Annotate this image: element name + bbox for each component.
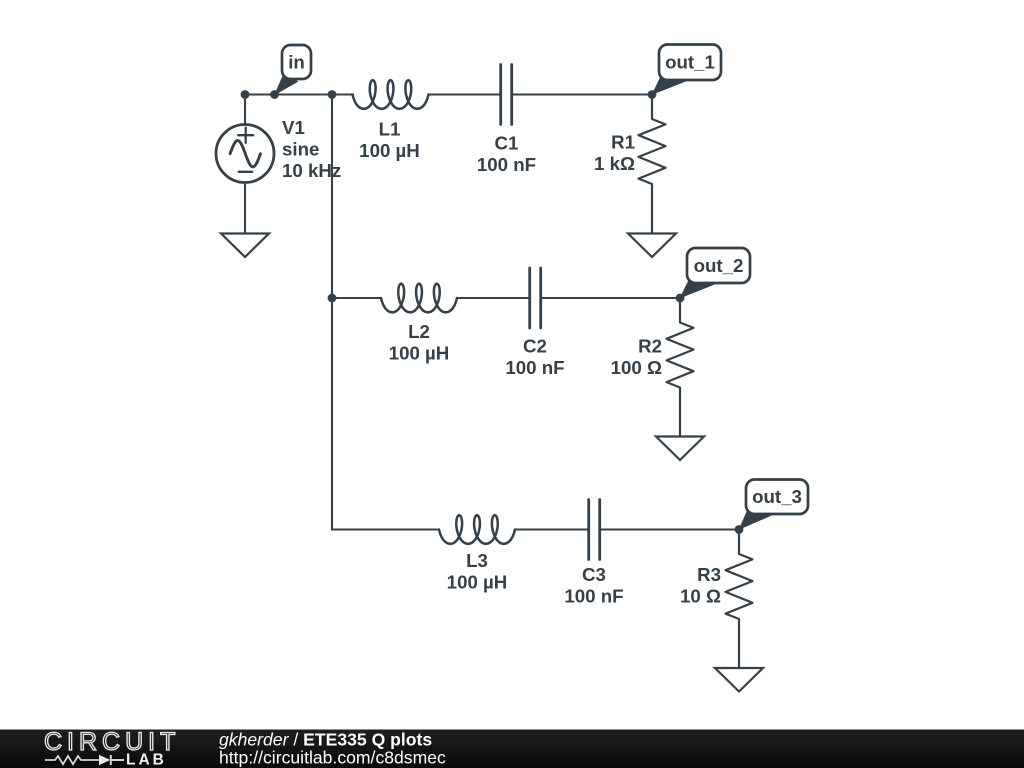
wire: L3 to C3 <box>515 528 588 530</box>
wire: C1 to out_1 node <box>513 93 653 95</box>
inductor L3 <box>439 515 515 544</box>
label C1 100 nF <box>477 133 536 176</box>
svg-text:C3: C3 <box>582 564 606 585</box>
ground below R3 <box>715 668 763 692</box>
CircuitLab logo resistor-diode glyph <box>45 755 124 765</box>
svg-text:100 nF: 100 nF <box>477 154 536 175</box>
wire: C3 to out_3 node <box>601 528 740 530</box>
node out_3 label <box>735 480 808 534</box>
node out_2 label <box>676 248 750 302</box>
svg-text:10 Ω: 10 Ω <box>680 586 721 607</box>
inductor L1 <box>353 80 429 109</box>
svg-text:out_1: out_1 <box>665 52 715 73</box>
svg-text:V1: V1 <box>282 117 305 138</box>
wire: L2 to C2 <box>457 297 529 299</box>
svg-text:gkherder / ETE335 Q plots: gkherder / ETE335 Q plots <box>219 730 432 750</box>
resistor R1 <box>639 95 666 234</box>
wire: bus to L2 <box>332 297 381 299</box>
junction dot at bus/row2 <box>328 294 337 303</box>
svg-text:out_3: out_3 <box>752 486 802 507</box>
svg-text:C2: C2 <box>523 336 547 357</box>
label R3 10 Ohm <box>680 564 721 607</box>
svg-text:100 µH: 100 µH <box>447 572 508 593</box>
label R2 100 Ohm <box>611 336 662 379</box>
capacitor C3 <box>589 500 600 560</box>
svg-text:R3: R3 <box>697 564 721 585</box>
capacitor C1 <box>501 65 512 125</box>
svg-text:1 kΩ: 1 kΩ <box>594 153 635 174</box>
junction dot at V1 top <box>241 90 250 99</box>
resistor R2 <box>667 298 694 437</box>
svg-text:out_2: out_2 <box>694 255 744 276</box>
ground below V1 <box>221 234 269 258</box>
node out_1 label <box>648 45 721 99</box>
label L1 100 uH <box>359 119 420 162</box>
label V1 sine 10 kHz <box>282 117 341 181</box>
svg-text:C1: C1 <box>495 133 519 154</box>
wire: V1 top node to L1 <box>245 93 353 95</box>
label L3 100 uH <box>447 550 508 593</box>
wire: main vertical bus with bend to row 3 <box>332 95 439 530</box>
ground below R2 <box>656 437 704 461</box>
label C2 100 nF <box>505 336 564 379</box>
wire: C2 to out_2 node <box>542 297 681 299</box>
label R1 1 kOhm <box>594 132 635 175</box>
voltage source V1 <box>216 95 274 234</box>
svg-text:100 µH: 100 µH <box>359 140 420 161</box>
svg-text:LAB: LAB <box>126 752 167 768</box>
svg-text:in: in <box>288 51 305 72</box>
ground below R1 <box>628 234 676 258</box>
node in label <box>270 45 311 99</box>
inductor L2 <box>381 284 457 313</box>
junction dot at bus/row1 <box>328 90 337 99</box>
resistor R3 <box>726 530 753 669</box>
svg-text:L3: L3 <box>466 550 488 571</box>
svg-text:100 Ω: 100 Ω <box>611 357 662 378</box>
svg-text:R2: R2 <box>638 336 662 357</box>
svg-text:L2: L2 <box>408 321 430 342</box>
svg-text:L1: L1 <box>379 119 401 140</box>
svg-text:R1: R1 <box>611 132 635 153</box>
svg-text:sine: sine <box>282 139 319 160</box>
label C3 100 nF <box>564 564 623 607</box>
svg-text:100 µH: 100 µH <box>389 343 450 364</box>
svg-text:10 kHz: 10 kHz <box>282 160 341 181</box>
svg-text:100 nF: 100 nF <box>505 357 564 378</box>
label L2 100 uH <box>389 321 450 364</box>
svg-text:http://circuitlab.com/c8dsmec: http://circuitlab.com/c8dsmec <box>219 748 446 768</box>
svg-text:100 nF: 100 nF <box>564 586 623 607</box>
capacitor C2 <box>530 268 541 328</box>
wire: L1 to C1 <box>429 93 501 95</box>
